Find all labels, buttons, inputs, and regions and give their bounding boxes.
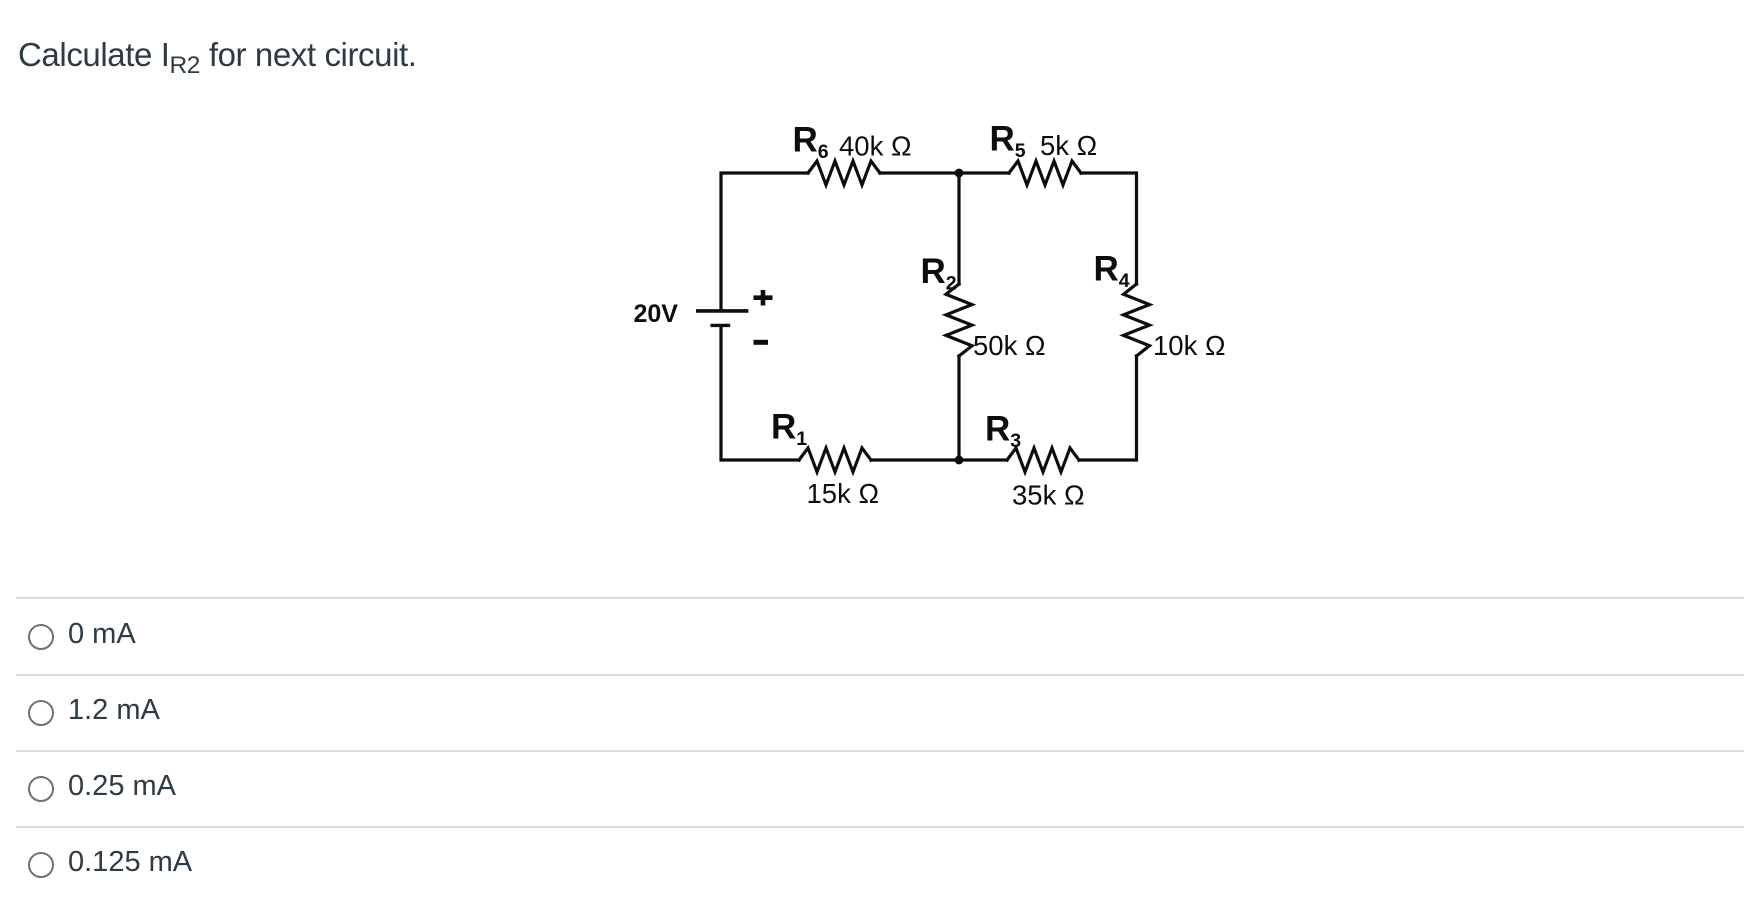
resistor R1 xyxy=(799,448,871,472)
resistor R4 xyxy=(1124,284,1150,356)
answer separator 4 xyxy=(16,826,1744,828)
battery V1 positive plate xyxy=(696,309,748,313)
svg-text:R5: R5 xyxy=(990,120,1026,163)
answer separator 3 xyxy=(16,750,1744,752)
wire: top-middle node to R5 xyxy=(959,171,1009,174)
radio option 3 xyxy=(28,776,54,802)
wire: R5 to top-right corner down to R4 xyxy=(1081,173,1137,284)
radio option 2 xyxy=(28,700,54,726)
wire: R4 to bottom-right corner to R3 xyxy=(1079,356,1137,460)
radio option 4 xyxy=(28,852,54,878)
resistor R5 xyxy=(1009,161,1081,185)
svg-text:20V: 20V xyxy=(634,300,679,328)
wire: R2 to bottom-middle node xyxy=(957,356,960,460)
battery V1 negative plate xyxy=(710,324,730,327)
answer separator 2 xyxy=(16,674,1744,676)
svg-text:40k Ω: 40k Ω xyxy=(839,131,912,162)
radio option 1 xyxy=(28,624,54,650)
wire top-left: left corner to R6 xyxy=(721,173,808,311)
node bottom-middle junction xyxy=(955,456,964,465)
wire: R1 to bottom-middle node xyxy=(871,458,959,461)
svg-text:10k Ω: 10k Ω xyxy=(1153,330,1226,361)
resistor R6 xyxy=(808,161,880,185)
circuit schematic xyxy=(600,90,1280,530)
wire: middle vertical from top node to R2 xyxy=(957,173,960,284)
battery plus sign xyxy=(754,290,773,306)
node top-middle junction xyxy=(955,169,964,178)
svg-text:50k Ω: 50k Ω xyxy=(973,330,1046,361)
wire: bottom-middle node to R3 xyxy=(959,458,1007,461)
svg-text:R1: R1 xyxy=(771,408,807,451)
svg-text:R6: R6 xyxy=(793,121,829,164)
answer separator 1 xyxy=(16,597,1744,599)
svg-text:R4: R4 xyxy=(1094,250,1130,293)
battery minus sign xyxy=(754,340,769,345)
svg-text:35k Ω: 35k Ω xyxy=(1012,480,1085,511)
svg-text:15k Ω: 15k Ω xyxy=(807,478,880,509)
wire: bottom-left corner to R1 xyxy=(721,326,799,460)
svg-text:5k Ω: 5k Ω xyxy=(1040,130,1097,161)
svg-text:R2: R2 xyxy=(921,252,957,295)
question heading xyxy=(18,36,417,74)
svg-text:R3: R3 xyxy=(985,410,1021,453)
resistor R2 xyxy=(946,284,972,356)
resistor R3 xyxy=(1007,448,1079,472)
wire: R6 to top-middle node xyxy=(880,171,959,174)
